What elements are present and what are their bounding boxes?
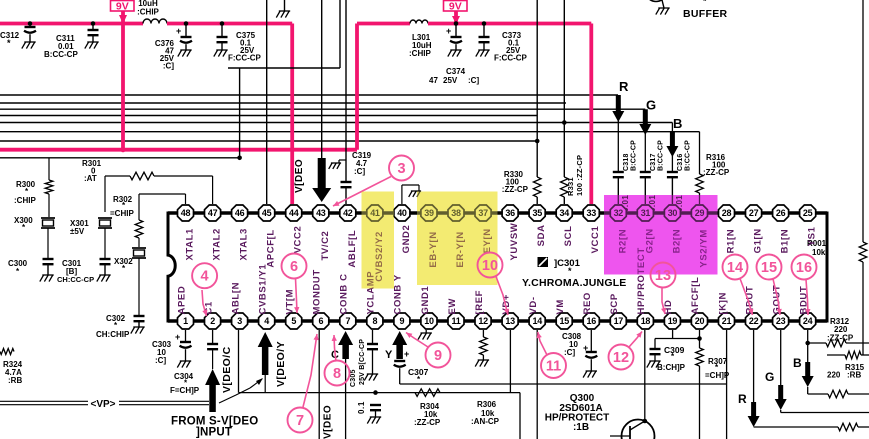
svg-text:14: 14 bbox=[532, 316, 542, 326]
svg-text:XTAL1: XTAL1 bbox=[185, 228, 196, 260]
svg-text:34: 34 bbox=[559, 208, 569, 218]
svg-text:10: 10 bbox=[424, 316, 434, 326]
svg-text:18: 18 bbox=[641, 316, 651, 326]
svg-text::ZZ-CP: :ZZ-CP bbox=[502, 185, 529, 194]
svg-text:17: 17 bbox=[614, 316, 624, 326]
svg-text:R: R bbox=[619, 79, 629, 94]
svg-text:GND1: GND1 bbox=[420, 286, 431, 315]
svg-text:12: 12 bbox=[478, 316, 488, 326]
svg-text:Y: Y bbox=[385, 349, 393, 361]
svg-text::AN-CP: :AN-CP bbox=[471, 417, 500, 426]
svg-text:40: 40 bbox=[397, 208, 407, 218]
svg-text:1: 1 bbox=[183, 316, 188, 326]
svg-text:25: 25 bbox=[803, 208, 813, 218]
svg-text:SDA: SDA bbox=[536, 224, 547, 246]
svg-text:SCP: SCP bbox=[609, 293, 620, 314]
svg-text:R1[N: R1[N bbox=[726, 229, 737, 254]
svg-text:8: 8 bbox=[333, 366, 341, 382]
svg-text:0.1: 0.1 bbox=[357, 401, 366, 414]
svg-text:C316: C316 bbox=[677, 153, 684, 171]
svg-text::CHIP: :CHIP bbox=[14, 196, 36, 205]
svg-text:R331: R331 bbox=[566, 177, 575, 196]
svg-text:R: R bbox=[738, 392, 747, 406]
svg-text:25V: 25V bbox=[443, 76, 458, 85]
svg-text:APED: APED bbox=[176, 286, 187, 315]
svg-text:TV/C2: TV/C2 bbox=[320, 231, 331, 261]
svg-text:Y.CHROMA.JUNGLE: Y.CHROMA.JUNGLE bbox=[522, 277, 627, 289]
svg-text::1B: :1B bbox=[573, 422, 589, 433]
svg-text:44: 44 bbox=[289, 208, 299, 218]
svg-text:7: 7 bbox=[296, 413, 304, 429]
svg-text:3: 3 bbox=[397, 161, 405, 177]
svg-text:9V: 9V bbox=[116, 0, 129, 12]
svg-text::C]: :C] bbox=[155, 356, 166, 365]
svg-text::RB: :RB bbox=[847, 371, 861, 380]
svg-text:GND2: GND2 bbox=[401, 225, 412, 254]
svg-text:<VP>: <VP> bbox=[90, 399, 115, 410]
svg-text:MONDUT: MONDUT bbox=[312, 269, 323, 314]
svg-text:11: 11 bbox=[546, 359, 561, 375]
svg-text:B:CC-CP: B:CC-CP bbox=[657, 140, 664, 171]
svg-text:[K]N: [K]N bbox=[717, 292, 728, 314]
svg-text:V[DEO: V[DEO bbox=[294, 159, 305, 193]
svg-text:22: 22 bbox=[749, 316, 759, 326]
svg-text:6: 6 bbox=[290, 259, 298, 275]
svg-text:F:CC-CP: F:CC-CP bbox=[494, 54, 528, 63]
svg-text:REO: REO bbox=[582, 292, 593, 314]
svg-text:25V B[CC-CP: 25V B[CC-CP bbox=[359, 339, 366, 385]
svg-text:100 :ZZ-CP: 100 :ZZ-CP bbox=[575, 155, 584, 196]
svg-text:13: 13 bbox=[655, 268, 671, 284]
svg-text:46: 46 bbox=[235, 208, 245, 218]
svg-text:XTAL3: XTAL3 bbox=[239, 228, 250, 260]
svg-text:B:CC-CP: B:CC-CP bbox=[684, 140, 691, 171]
svg-text:14: 14 bbox=[727, 260, 743, 276]
svg-text:BUFFER: BUFFER bbox=[683, 8, 727, 20]
svg-text:35: 35 bbox=[532, 208, 542, 218]
svg-text::ZZ-CP: :ZZ-CP bbox=[414, 418, 441, 427]
svg-text:5: 5 bbox=[291, 316, 296, 326]
svg-text:SCL: SCL bbox=[563, 225, 574, 246]
svg-text:12: 12 bbox=[613, 350, 629, 366]
svg-text:V[DEO/Y: V[DEO/Y bbox=[275, 341, 287, 387]
svg-text:9: 9 bbox=[400, 316, 405, 326]
svg-text:220: 220 bbox=[827, 371, 841, 380]
svg-text:XTAL2: XTAL2 bbox=[212, 228, 223, 260]
svg-text:V[DEO: V[DEO bbox=[323, 405, 334, 439]
svg-text:C317: C317 bbox=[650, 153, 657, 171]
svg-text:=CHIP: =CHIP bbox=[110, 209, 134, 218]
svg-text::ZZ-CP: :ZZ-CP bbox=[703, 168, 730, 177]
svg-text:*: * bbox=[568, 266, 572, 276]
svg-text:VCC2: VCC2 bbox=[293, 226, 304, 254]
svg-text:4: 4 bbox=[201, 269, 209, 285]
svg-text:26: 26 bbox=[776, 208, 786, 218]
svg-text::CHIP: :CHIP bbox=[137, 8, 159, 17]
svg-text:+: + bbox=[446, 26, 451, 36]
svg-text::AT: :AT bbox=[84, 174, 97, 183]
svg-text:CH:CHIP: CH:CHIP bbox=[96, 330, 130, 339]
svg-text:*: * bbox=[7, 38, 11, 48]
svg-text:*: * bbox=[703, 0, 707, 6]
svg-text:R306: R306 bbox=[477, 400, 497, 409]
svg-text::ZZ-CP: :ZZ-CP bbox=[827, 334, 854, 343]
svg-text:+: + bbox=[404, 349, 409, 359]
svg-text::C]: :C] bbox=[354, 167, 365, 176]
svg-text:2: 2 bbox=[210, 316, 215, 326]
svg-text:B: B bbox=[793, 356, 802, 370]
svg-text:YUVSW: YUVSW bbox=[509, 223, 520, 261]
svg-text::C]: :C] bbox=[564, 348, 575, 357]
svg-text:APCF[L: APCF[L bbox=[266, 229, 277, 267]
svg-text:48: 48 bbox=[181, 208, 191, 218]
svg-text:20: 20 bbox=[695, 316, 705, 326]
svg-text:6: 6 bbox=[318, 316, 323, 326]
svg-text:G1[N: G1[N bbox=[753, 228, 764, 253]
svg-text:C318: C318 bbox=[623, 153, 630, 171]
svg-text:VT[M: VT[M bbox=[285, 289, 296, 315]
svg-text:9: 9 bbox=[434, 348, 442, 364]
svg-text:VCC1: VCC1 bbox=[590, 226, 601, 254]
svg-text:ABLF[L: ABLF[L bbox=[347, 230, 358, 268]
svg-text:V[DEO/C: V[DEO/C bbox=[221, 346, 233, 393]
svg-text:42: 42 bbox=[343, 208, 353, 218]
svg-text:47: 47 bbox=[208, 208, 218, 218]
svg-text:13: 13 bbox=[505, 316, 515, 326]
svg-text:YS1: YS1 bbox=[807, 226, 818, 246]
svg-text:+: + bbox=[176, 26, 181, 36]
svg-text:C374: C374 bbox=[446, 67, 466, 76]
svg-text:4: 4 bbox=[264, 316, 269, 326]
svg-text:27: 27 bbox=[749, 208, 759, 218]
svg-text:28: 28 bbox=[722, 208, 732, 218]
svg-text:7: 7 bbox=[345, 316, 350, 326]
svg-text:9V: 9V bbox=[449, 0, 462, 12]
svg-text:B: B bbox=[673, 116, 682, 131]
svg-text:B1[N: B1[N bbox=[780, 229, 791, 254]
svg-text:15: 15 bbox=[559, 316, 569, 326]
svg-text:B:CC-CP: B:CC-CP bbox=[44, 50, 78, 59]
svg-text:B:CH]P: B:CH]P bbox=[657, 363, 686, 372]
svg-text:G: G bbox=[765, 370, 774, 384]
svg-text:B:CC-CP: B:CC-CP bbox=[630, 140, 637, 171]
svg-text:CVBS1/Y1: CVBS1/Y1 bbox=[257, 264, 268, 315]
svg-text:VD-: VD- bbox=[528, 296, 539, 314]
svg-text:C309: C309 bbox=[664, 345, 685, 355]
svg-text::C]: :C] bbox=[163, 62, 174, 71]
svg-text:VM: VM bbox=[555, 299, 566, 314]
svg-text:ABL[N: ABL[N bbox=[230, 282, 241, 315]
svg-text:EW: EW bbox=[447, 298, 458, 315]
svg-text:CONB Y: CONB Y bbox=[393, 274, 404, 314]
svg-text:+: + bbox=[175, 332, 180, 342]
svg-text:10: 10 bbox=[482, 258, 498, 274]
svg-text:24: 24 bbox=[803, 316, 813, 326]
svg-text:±5V: ±5V bbox=[70, 227, 85, 236]
svg-text:45: 45 bbox=[262, 208, 272, 218]
svg-text::CHIP: :CHIP bbox=[409, 49, 431, 58]
svg-text:CH:CC-CP: CH:CC-CP bbox=[57, 275, 94, 284]
svg-text:16: 16 bbox=[796, 260, 812, 276]
svg-text:21: 21 bbox=[722, 316, 732, 326]
svg-text:F=CH]P: F=CH]P bbox=[170, 386, 200, 395]
svg-text:F:CC-CP: F:CC-CP bbox=[228, 54, 262, 63]
svg-text:43: 43 bbox=[316, 208, 326, 218]
svg-text:]NPUT: ]NPUT bbox=[196, 427, 232, 439]
svg-text:CONB C: CONB C bbox=[339, 273, 350, 314]
svg-text:33: 33 bbox=[586, 208, 596, 218]
svg-text:[REF: [REF bbox=[474, 290, 485, 315]
svg-text:3: 3 bbox=[237, 316, 242, 326]
svg-text:23: 23 bbox=[776, 316, 786, 326]
svg-text:C305: C305 bbox=[350, 369, 357, 387]
svg-text:36: 36 bbox=[505, 208, 515, 218]
svg-text:10k: 10k bbox=[812, 248, 826, 257]
svg-text:16: 16 bbox=[586, 316, 596, 326]
svg-text::RB: :RB bbox=[8, 376, 22, 385]
svg-text:47: 47 bbox=[429, 76, 438, 85]
svg-text:15: 15 bbox=[761, 260, 777, 276]
svg-text:8: 8 bbox=[373, 316, 378, 326]
svg-text::C]: :C] bbox=[468, 76, 479, 85]
svg-text:19: 19 bbox=[668, 316, 678, 326]
svg-text:AFCF[L: AFCF[L bbox=[690, 277, 701, 315]
svg-text:11: 11 bbox=[452, 316, 461, 326]
